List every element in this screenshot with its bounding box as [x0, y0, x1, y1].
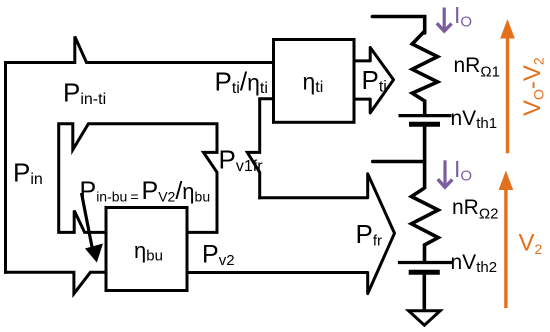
converter U1 (boost, eta-ti) box: [274, 40, 355, 123]
label V2: [519, 230, 543, 258]
label eta-bu in converter U2: [134, 238, 163, 265]
label Pti/eta-ti: [215, 67, 268, 98]
wire node VO (top rail): [372, 17, 424, 34]
pointer arrow from Pin-bu label to junction: [82, 193, 104, 263]
converter U2 (buck, eta-bu) box: [106, 208, 187, 291]
wire Pin left bus: [4, 61, 7, 274]
resistor nRO2: [411, 188, 438, 261]
label VO-V2: [519, 57, 547, 116]
battery nVth2: [398, 263, 452, 273]
current arrow IO top (purple): [437, 8, 452, 32]
resistor nRO1: [412, 31, 437, 114]
svg-text:VO-V2: VO-V2: [519, 57, 547, 116]
label IO mid: [454, 156, 472, 185]
wire Pin-ti top branch with break notch: [4, 37, 272, 63]
label Pfr: [356, 219, 383, 250]
wire battery2 to ground: [422, 274, 426, 311]
battery nVth1: [399, 116, 452, 125]
label IO top: [454, 2, 472, 31]
wire Pv1fr from converter U1 down to Pfr arrow: [247, 99, 273, 200]
label Pin-bu equation: [80, 177, 211, 205]
block arrow Pfr: [186, 174, 395, 294]
label Pin-ti: [63, 78, 106, 109]
svg-text:Pti/ηti: Pti/ηti: [215, 67, 268, 98]
label nRO2: [452, 196, 498, 223]
wire battery1 to node V2: [423, 126, 427, 189]
block arrow Pti: [354, 48, 394, 113]
label Pin: [13, 158, 43, 189]
label Pti on block arrow: [362, 65, 387, 96]
wire node V2 middle tap: [373, 160, 425, 164]
label nRO1: [454, 54, 500, 81]
voltage arrow V2 (orange): [499, 171, 514, 309]
wire Pin-bu bottom branch with break notch: [4, 272, 106, 293]
label nVth1: [451, 107, 498, 132]
wire Pv1 feedback loop (left/top/right with break notches): [59, 124, 217, 233]
label nVth2: [451, 251, 498, 276]
label Pv2: [202, 241, 235, 270]
voltage arrow VO-V2 (orange): [500, 19, 515, 153]
current arrow IO mid (purple): [438, 160, 453, 187]
ground: [409, 311, 441, 326]
label Pv1fr: [219, 145, 264, 176]
label eta-ti in converter U1: [303, 69, 324, 97]
